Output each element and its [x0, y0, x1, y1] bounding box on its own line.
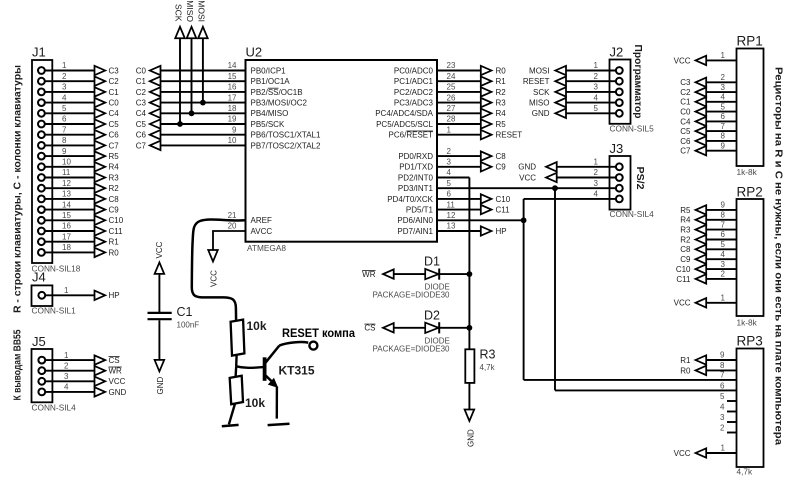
- svg-text:D2: D2: [424, 308, 440, 322]
- svg-text:PC2/ADC2: PC2/ADC2: [394, 88, 434, 97]
- wire U2 pin4 PD2/INT0 down to diodes and R3: [437, 178, 469, 350]
- svg-text:R4: R4: [680, 216, 691, 225]
- svg-text:PACKAGE=DIODE30: PACKAGE=DIODE30: [373, 344, 451, 353]
- note: to BB55 pins (rotated): [12, 329, 24, 400]
- svg-text:3: 3: [721, 83, 726, 92]
- svg-text:GND: GND: [532, 109, 550, 118]
- wire U2 pin12 PD5/T1 to junction: [437, 219, 524, 221]
- resistor network RP2: [737, 185, 764, 328]
- J1 pin 8 wire to net C7: [38, 136, 119, 150]
- svg-text:GND: GND: [518, 163, 536, 172]
- svg-text:GND: GND: [109, 388, 127, 397]
- J1 pin 15 wire to net C10: [38, 211, 124, 225]
- svg-text:7: 7: [721, 122, 726, 131]
- J5 pin 2 wire to net WR: [38, 361, 122, 375]
- svg-text:CONN-SIL4: CONN-SIL4: [32, 402, 77, 412]
- svg-text:15: 15: [62, 211, 71, 220]
- J5 pin 3 wire to net VCC: [38, 372, 125, 386]
- J5 pin 4 wire to net GND: [38, 383, 126, 397]
- svg-text:R5: R5: [496, 120, 507, 129]
- svg-text:HP: HP: [496, 227, 507, 236]
- svg-text:C1: C1: [680, 98, 691, 107]
- svg-text:C7: C7: [680, 147, 691, 156]
- U2 pin 18 PB4/MISO wire, net C4: [136, 104, 289, 118]
- svg-text:PB5/SCK: PB5/SCK: [251, 120, 285, 129]
- svg-text:10: 10: [228, 136, 237, 145]
- U2 pin 25 wire, net R2: [394, 83, 506, 97]
- svg-text:R2: R2: [109, 184, 120, 193]
- U2 pin 21 AREF: [228, 211, 272, 225]
- svg-text:CONN-SIL1: CONN-SIL1: [32, 305, 77, 315]
- svg-text:WR: WR: [109, 367, 123, 376]
- svg-text:C8: C8: [680, 245, 691, 254]
- svg-text:KT315: KT315: [279, 364, 315, 378]
- svg-text:PC5/ADC5/SCL: PC5/ADC5/SCL: [376, 120, 433, 129]
- svg-text:C9: C9: [109, 206, 120, 215]
- RP3 pin 5 stub: [720, 392, 736, 401]
- svg-text:PC3/ADC3: PC3/ADC3: [394, 99, 434, 108]
- U2 pin 26 wire, net R3: [394, 93, 506, 107]
- svg-text:23: 23: [447, 61, 456, 70]
- svg-text:PC4/ADC4/SDA: PC4/ADC4/SDA: [375, 109, 433, 118]
- wire collector to RESET terminal: [279, 326, 355, 350]
- svg-text:5: 5: [721, 102, 726, 111]
- svg-text:1: 1: [64, 351, 69, 360]
- svg-text:C3: C3: [136, 99, 147, 108]
- svg-text:20: 20: [228, 222, 237, 231]
- svg-text:10k: 10k: [245, 396, 265, 410]
- resistor 10k lower (hand drawn): [230, 376, 266, 410]
- RP3 pin 6 number: [720, 381, 725, 390]
- U2 pin 20 AVCC: [228, 222, 273, 236]
- resistor network RP1: [737, 34, 764, 177]
- U2 pin 15 PB1/OC1A wire, net C1: [136, 72, 291, 86]
- svg-text:PB0/ICP1: PB0/ICP1: [251, 66, 287, 75]
- svg-text:C10: C10: [676, 265, 691, 274]
- svg-text:R5: R5: [109, 152, 120, 161]
- svg-text:C5: C5: [136, 120, 147, 129]
- wire emitter to ground stub: [268, 387, 290, 426]
- svg-text:C0: C0: [136, 66, 147, 75]
- svg-text:13: 13: [62, 190, 71, 199]
- svg-text:8: 8: [62, 136, 67, 145]
- svg-text:R3: R3: [109, 173, 120, 182]
- net MOSI vertical wire and top arrow: [197, 0, 208, 102]
- svg-text:J5: J5: [32, 334, 46, 349]
- wire divider node: [236, 356, 264, 377]
- J1 pin 17 wire to net R1: [38, 232, 119, 246]
- svg-text:13: 13: [447, 222, 456, 231]
- wire R3 to ground: [468, 383, 470, 411]
- J2 pin 2 wire, net RESET: [523, 72, 623, 86]
- ground symbol below R3: [465, 410, 476, 448]
- RP3 pin 2 stub: [720, 424, 736, 433]
- wire C1 to ground: [158, 320, 160, 360]
- RP2 pin 3 wire, net C10: [676, 260, 737, 274]
- J3 pin 4 circle: [594, 190, 623, 203]
- U2 pin 19 PB5/SCK wire, net C5: [136, 115, 285, 129]
- svg-text:11: 11: [447, 200, 456, 209]
- svg-text:PS/2: PS/2: [634, 167, 646, 190]
- U2 pin 27 wire, net R4: [375, 104, 506, 118]
- svg-text:3: 3: [62, 83, 67, 92]
- svg-text:R1: R1: [496, 77, 507, 86]
- U2 pin 3 PD1/TXD wire, net C9: [399, 158, 506, 172]
- svg-text:8: 8: [721, 132, 726, 141]
- svg-text:4: 4: [721, 93, 726, 102]
- RP2 pin 2 wire, net C11: [676, 270, 736, 284]
- svg-text:9: 9: [232, 125, 237, 134]
- J1 pin 11 wire to net R3: [38, 168, 119, 182]
- svg-text:3: 3: [594, 83, 599, 92]
- svg-text:PD2/INT0: PD2/INT0: [398, 173, 434, 182]
- wire U2 AVCC to VCC symbol: [213, 231, 246, 252]
- RP1 pin 3 wire, net C2: [680, 83, 736, 97]
- svg-text:C11: C11: [676, 275, 691, 284]
- RP1 pin 6 wire, net C4: [680, 112, 736, 126]
- J1 pin 3 wire to net C1: [38, 83, 119, 97]
- svg-text:21: 21: [228, 211, 237, 220]
- U2 pin 10 PB7/TOSC2/XTAL2 wire, net C7: [136, 136, 321, 150]
- svg-text:Рецисторы на R и С не нужны, е: Рецисторы на R и С не нужны, если они ес…: [773, 67, 785, 445]
- U2 pin 2 PD0/RXD wire, net C8: [398, 147, 506, 161]
- connector J4: [32, 270, 77, 316]
- svg-text:PD4/T0/XCK: PD4/T0/XCK: [387, 195, 433, 204]
- J2 pin 5 wire, net GND: [532, 104, 623, 118]
- svg-text:2: 2: [62, 72, 67, 81]
- U2 pin 28 wire, net R5: [376, 115, 506, 129]
- J1 pin 4 wire to net C0: [38, 93, 119, 107]
- junction MISO: [189, 110, 195, 116]
- svg-text:RESET: RESET: [496, 131, 523, 140]
- svg-text:1k-8k: 1k-8k: [737, 167, 758, 177]
- svg-text:PD6/AIN0: PD6/AIN0: [397, 216, 433, 225]
- svg-text:Программатор: Программатор: [632, 45, 644, 119]
- note: resistors on R and C not needed (rotated): [773, 67, 785, 445]
- U2 pin 9 PB6/TOSC1/XTAL1 wire, net C6: [136, 125, 321, 139]
- RP2 pin 5 wire, net C8: [680, 240, 736, 254]
- svg-text:GND: GND: [467, 429, 476, 447]
- svg-text:R5: R5: [680, 206, 691, 215]
- svg-text:100nF: 100nF: [177, 321, 200, 330]
- svg-text:3: 3: [447, 158, 452, 167]
- svg-text:9: 9: [62, 147, 67, 156]
- svg-text:C6: C6: [109, 131, 120, 140]
- svg-text:C4: C4: [109, 109, 120, 118]
- power VCC arrow above C1: [155, 241, 165, 274]
- svg-text:5: 5: [447, 179, 452, 188]
- RP2 pin 1 wire, net VCC: [674, 294, 737, 308]
- net MISO vertical wire and top arrow: [185, 0, 196, 113]
- J3 pin 3 circle: [594, 179, 623, 192]
- svg-text:C9: C9: [680, 255, 691, 264]
- svg-text:2: 2: [447, 147, 452, 156]
- transistor Q1 KT315: [265, 346, 315, 388]
- wire junction down to RP3 pin 7: [524, 220, 737, 380]
- svg-text:MISO: MISO: [529, 99, 549, 108]
- J1 pin 10 wire to net R4: [38, 158, 119, 172]
- svg-text:15: 15: [228, 72, 237, 81]
- svg-text:2: 2: [594, 72, 599, 81]
- svg-text:U2: U2: [246, 45, 263, 60]
- svg-text:4,7k: 4,7k: [737, 467, 754, 477]
- RP1 pin 2 wire, net C3: [680, 73, 736, 87]
- svg-text:PD0/RXD: PD0/RXD: [398, 152, 433, 161]
- svg-text:C2: C2: [109, 77, 120, 86]
- svg-text:PB1/OC1A: PB1/OC1A: [251, 77, 291, 86]
- svg-text:J2: J2: [610, 45, 624, 60]
- svg-text:4: 4: [721, 250, 726, 259]
- resistor 10k upper (hand drawn): [231, 319, 267, 356]
- svg-text:C7: C7: [109, 141, 120, 150]
- svg-text:4: 4: [62, 93, 67, 102]
- svg-text:VCC: VCC: [519, 173, 536, 182]
- svg-text:WR: WR: [362, 270, 376, 279]
- U2 pin 5 PD3/INT1 wire: [398, 179, 452, 193]
- svg-text:1: 1: [62, 61, 67, 70]
- svg-text:27: 27: [447, 104, 456, 113]
- U2 pin 4 PD2/INT0 wire: [398, 168, 452, 182]
- svg-text:C1: C1: [177, 305, 193, 319]
- svg-text:R4: R4: [496, 109, 507, 118]
- svg-text:VCC: VCC: [674, 299, 691, 308]
- svg-text:C11: C11: [109, 227, 124, 236]
- svg-text:2: 2: [720, 424, 725, 433]
- wire lower 10k to ground stub: [222, 404, 239, 426]
- J3 pin 2 wire, net VCC: [519, 168, 623, 182]
- svg-text:R1: R1: [109, 238, 120, 247]
- svg-text:26: 26: [447, 93, 456, 102]
- svg-text:RESET компа: RESET компа: [282, 326, 355, 340]
- svg-text:J4: J4: [32, 270, 46, 285]
- J1 pin 1 wire to net C3: [38, 61, 119, 75]
- J1 pin 13 wire to net C8: [38, 190, 119, 204]
- svg-text:17: 17: [228, 93, 237, 102]
- svg-text:RP2: RP2: [737, 185, 763, 200]
- svg-text:C7: C7: [136, 141, 147, 150]
- svg-text:4: 4: [594, 93, 599, 102]
- svg-text:К выводам ВВ55: К выводам ВВ55: [12, 329, 24, 400]
- svg-text:CONN-SIL5: CONN-SIL5: [610, 124, 655, 134]
- svg-text:4,7k: 4,7k: [480, 363, 496, 372]
- svg-text:C1: C1: [109, 88, 120, 97]
- connector J5: [32, 334, 77, 412]
- svg-text:10k: 10k: [247, 319, 267, 333]
- svg-text:14: 14: [62, 200, 71, 209]
- RP2 pin 9 wire, net R5: [680, 201, 736, 215]
- svg-text:PC0/ADC0: PC0/ADC0: [394, 66, 434, 75]
- svg-text:VCC: VCC: [210, 270, 219, 287]
- svg-text:PB3/MOSI/OC2: PB3/MOSI/OC2: [251, 99, 308, 108]
- svg-text:SCK: SCK: [533, 88, 550, 97]
- wire U2 pin5 PD3/INT1 to J3 pin 3: [437, 187, 616, 189]
- RP2 pin 7 wire, net R3: [680, 220, 736, 234]
- svg-text:C0: C0: [109, 99, 120, 108]
- svg-text:CONN-SIL4: CONN-SIL4: [610, 209, 655, 219]
- svg-text:4: 4: [720, 403, 725, 412]
- svg-text:PB4/MISO: PB4/MISO: [251, 109, 289, 118]
- svg-text:5: 5: [62, 104, 67, 113]
- svg-text:PC1/ADC1: PC1/ADC1: [394, 77, 434, 86]
- svg-text:R4: R4: [109, 163, 120, 172]
- power VCC arrow below AVCC: [208, 250, 218, 287]
- J1 pin 7 wire to net C6: [38, 125, 119, 139]
- freehand wire from AREF to resistor divider: [192, 220, 246, 321]
- svg-text:18: 18: [228, 104, 237, 113]
- J2 pin 4 wire, net MISO: [529, 93, 623, 107]
- svg-text:VCC: VCC: [155, 241, 164, 258]
- svg-text:C9: C9: [496, 163, 507, 172]
- svg-text:9: 9: [721, 201, 726, 210]
- RP3 pin 1 wire, net VCC: [674, 444, 737, 458]
- svg-text:VCC: VCC: [674, 56, 691, 65]
- connector J3 PS/2: [610, 141, 655, 219]
- svg-text:MOSI: MOSI: [197, 0, 207, 22]
- junction D2 cathode: [467, 325, 473, 331]
- svg-text:1: 1: [594, 158, 599, 167]
- svg-text:C2: C2: [136, 88, 147, 97]
- svg-text:PC6/RESET: PC6/RESET: [389, 131, 434, 140]
- svg-text:PD1/TXD: PD1/TXD: [399, 163, 433, 172]
- J1 pin 9 wire to net R5: [38, 147, 119, 161]
- svg-text:R3: R3: [680, 226, 691, 235]
- svg-text:3: 3: [721, 260, 726, 269]
- svg-text:2: 2: [64, 361, 69, 370]
- svg-text:RP3: RP3: [737, 334, 763, 349]
- U2 pin 24 wire, net R1: [394, 72, 506, 86]
- svg-text:6: 6: [62, 115, 67, 124]
- note: R - strings, C - columns of keyboard (rotated): [12, 65, 24, 313]
- J1 pin 2 wire to net C2: [38, 72, 119, 86]
- svg-text:24: 24: [447, 72, 456, 81]
- RP3 pin 3 stub: [720, 413, 736, 422]
- svg-text:C3: C3: [680, 78, 691, 87]
- svg-text:14: 14: [228, 61, 237, 70]
- svg-text:C4: C4: [680, 117, 691, 126]
- svg-text:C10: C10: [496, 195, 511, 204]
- svg-text:C5: C5: [680, 127, 691, 136]
- svg-text:7: 7: [721, 220, 726, 229]
- RP3 pin 7 number: [720, 371, 725, 380]
- svg-text:CS: CS: [109, 356, 120, 365]
- svg-text:PB6/TOSC1/XTAL1: PB6/TOSC1/XTAL1: [251, 131, 322, 140]
- junction SCK: [177, 121, 183, 127]
- junction PD5/T1 - J3 pin4: [521, 217, 527, 223]
- J1 pin 6 wire to net C5: [38, 115, 119, 129]
- RP1 pin 1 wire, net VCC: [674, 51, 737, 65]
- svg-text:16: 16: [228, 83, 237, 92]
- svg-text:C2: C2: [680, 88, 691, 97]
- resistor R3: [465, 348, 495, 383]
- junction D1 cathode: [467, 271, 473, 277]
- connector J2 programmer: [610, 45, 655, 134]
- svg-text:1k-8k: 1k-8k: [737, 317, 758, 327]
- svg-text:MOSI: MOSI: [529, 66, 549, 75]
- svg-text:6: 6: [720, 381, 725, 390]
- J2 pin 3 wire, net SCK: [533, 83, 623, 97]
- svg-text:12: 12: [447, 211, 456, 220]
- svg-text:HP: HP: [109, 291, 120, 300]
- U2 pin 12 PD6/AIN0 wire: [397, 211, 456, 225]
- svg-text:4: 4: [594, 190, 599, 199]
- diode D1: [373, 255, 451, 300]
- svg-text:J3: J3: [610, 141, 624, 156]
- resistor network RP3: [737, 334, 764, 477]
- J1 pin 14 wire to net C9: [38, 200, 119, 214]
- svg-text:17: 17: [62, 232, 71, 241]
- svg-text:11: 11: [62, 168, 71, 177]
- svg-text:R3: R3: [480, 348, 496, 362]
- svg-text:AVCC: AVCC: [251, 227, 273, 236]
- svg-text:2: 2: [594, 168, 599, 177]
- svg-text:PD3/INT1: PD3/INT1: [398, 184, 434, 193]
- svg-text:PD5/T1: PD5/T1: [406, 206, 434, 215]
- RP2 pin 8 wire, net R4: [680, 211, 736, 225]
- svg-text:1: 1: [721, 294, 726, 303]
- J2 pin 1 wire, net MOSI: [529, 61, 623, 75]
- svg-text:5: 5: [720, 392, 725, 401]
- svg-text:C1: C1: [136, 77, 147, 86]
- svg-text:C10: C10: [109, 216, 124, 225]
- svg-text:R1: R1: [680, 356, 691, 365]
- svg-text:7: 7: [720, 371, 725, 380]
- svg-text:VCC: VCC: [109, 377, 126, 386]
- net SCK vertical wire and top arrow: [174, 4, 185, 124]
- U2 pin 17 PB3/MOSI/OC2 wire, net C3: [136, 93, 308, 107]
- svg-text:3: 3: [64, 372, 69, 381]
- svg-text:5: 5: [721, 240, 726, 249]
- svg-text:R0: R0: [680, 366, 691, 375]
- svg-text:CS: CS: [364, 324, 375, 333]
- RP1 pin 7 wire, net C5: [680, 122, 736, 136]
- junction at J3 pin3 branch: [552, 185, 558, 191]
- svg-text:5: 5: [594, 104, 599, 113]
- U2 pin 23 wire, net R0: [394, 61, 506, 75]
- svg-text:C5: C5: [109, 120, 120, 129]
- wire J3 pin 4 to junction: [524, 199, 616, 220]
- U2 pin 1 wire, net RESET: [389, 125, 523, 139]
- svg-text:GND: GND: [156, 377, 165, 395]
- svg-text:2: 2: [721, 73, 726, 82]
- J5 pin 1 wire to net CS: [38, 351, 119, 365]
- svg-text:1: 1: [594, 61, 599, 70]
- svg-text:C6: C6: [680, 137, 691, 146]
- svg-text:9: 9: [720, 351, 725, 360]
- net label WR with arrow, wire to D1: [362, 269, 469, 279]
- capacitor C1 100nF: [148, 305, 200, 330]
- J1 pin 5 wire to net C4: [38, 104, 119, 118]
- svg-text:1: 1: [447, 125, 452, 134]
- J1 pin 16 wire to net C11: [38, 222, 123, 236]
- svg-text:19: 19: [228, 115, 237, 124]
- J1 pin 12 wire to net R2: [38, 179, 119, 193]
- wire VCC to C1: [158, 273, 160, 312]
- svg-text:R0: R0: [496, 66, 507, 75]
- svg-text:2: 2: [721, 270, 726, 279]
- U2 pin 11 PD5/T1 wire, net C11: [406, 200, 510, 214]
- U2 pin 16 PB2/ wire, net C2: [136, 83, 303, 97]
- U2 pin 6 PD4/T0/XCK wire, net C10: [387, 190, 511, 204]
- svg-text:1: 1: [721, 51, 726, 60]
- svg-text:PB7/TOSC2/XTAL2: PB7/TOSC2/XTAL2: [251, 141, 322, 150]
- svg-text:28: 28: [447, 115, 456, 124]
- RP1 pin 8 wire, net C6: [680, 132, 736, 146]
- svg-text:18: 18: [62, 243, 71, 252]
- svg-text:RESET: RESET: [523, 77, 550, 86]
- svg-text:1: 1: [64, 286, 69, 295]
- svg-text:R3: R3: [496, 99, 507, 108]
- svg-text:MISO: MISO: [185, 0, 195, 22]
